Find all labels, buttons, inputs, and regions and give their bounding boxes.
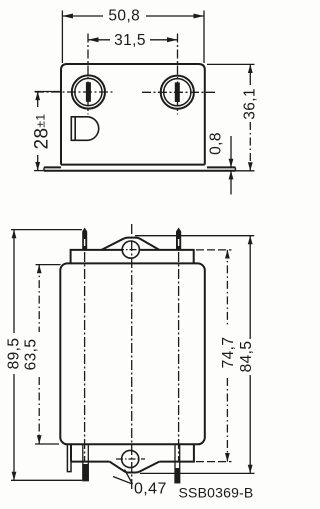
dimension 63,5: extension top bbox=[36, 264, 61, 266]
dimension 84,5: extension top bbox=[135, 235, 254, 237]
svg-text:28±1: 28±1 bbox=[32, 114, 53, 150]
dimension 31,5: dimension line bbox=[88, 39, 178, 41]
D-shaped cutout bbox=[71, 117, 98, 141]
dimension 28±1: dimension line bbox=[37, 92, 39, 171]
dimension 63,5: bottom arrow bbox=[37, 435, 42, 444]
dimension 74,7: extension bottom bbox=[196, 461, 232, 463]
screw terminal left: inner circle bbox=[75, 78, 102, 105]
dimension 36,1: extension line top bbox=[207, 63, 255, 65]
centerline horizontal right circle bbox=[142, 91, 218, 93]
dimension 84,5: top arrow bbox=[248, 236, 253, 245]
screw terminal left: outer circle bbox=[72, 75, 105, 108]
dimension 84,5: bottom arrow bbox=[248, 465, 253, 474]
base plate right end bbox=[234, 167, 236, 170]
svg-text:74,7: 74,7 bbox=[220, 337, 237, 369]
dimension 89,5: bottom arrow bbox=[12, 472, 17, 481]
dimension 74,7: dimension line bbox=[226, 250, 228, 462]
svg-text:0,47: 0,47 bbox=[134, 481, 167, 498]
dimension 50,8: left arrow bbox=[62, 14, 73, 19]
bottom mounting bracket bbox=[110, 462, 160, 473]
screw terminal right: screw slot bbox=[175, 82, 180, 102]
bottom terminal pin left bbox=[83, 444, 89, 480]
centerline vertical right pins bbox=[178, 252, 180, 462]
dimension 84,5: extension bottom bbox=[140, 472, 255, 474]
cover bottom edge bbox=[61, 164, 205, 166]
dimension 28±1: extension line bottom bbox=[34, 170, 44, 172]
leader 0,47: line b bbox=[125, 470, 133, 485]
svg-text:50,8: 50,8 bbox=[108, 8, 140, 25]
base plate top edge right segment bbox=[207, 166, 235, 168]
base plate (0,8 mm flange) top edge left segment bbox=[44, 166, 61, 168]
top bracket hole horizontal centerline bbox=[117, 249, 146, 251]
svg-text:63,5: 63,5 bbox=[23, 339, 40, 371]
dimension 31,5: left arrow bbox=[88, 37, 99, 42]
base plate left end bbox=[43, 167, 45, 170]
dimension 74,7: extension top bbox=[196, 249, 232, 251]
base plate bottom edge bbox=[44, 170, 235, 172]
svg-text:84,5: 84,5 bbox=[238, 341, 255, 373]
centerline horizontal left circle bbox=[35, 91, 113, 93]
svg-text:36,1: 36,1 bbox=[242, 88, 259, 120]
dimension 31,5: right arrow bbox=[167, 37, 178, 42]
dimension 89,5: extension top bbox=[11, 229, 82, 231]
dimension 63,5: top arrow bbox=[37, 265, 42, 274]
dimension 63,5: dimension line bbox=[38, 265, 40, 444]
cover outline (top view box) bbox=[61, 64, 205, 165]
dimension 84,5: dimension line bbox=[249, 236, 251, 474]
top mounting bracket bbox=[102, 238, 160, 250]
dimension 50,8: dimension line bbox=[62, 15, 204, 17]
dimension 89,5: extension bottom bbox=[11, 479, 82, 481]
dimension 50,8: extension line left bbox=[61, 11, 63, 64]
dimension 74,7: bottom arrow bbox=[225, 453, 230, 462]
bottom flange bbox=[71, 444, 194, 461]
top terminal pin left bbox=[82, 228, 87, 251]
dimension 28±1: top arrow bbox=[35, 92, 40, 101]
dimension 28±1: bottom arrow bbox=[35, 162, 40, 171]
dimension 36,1: bottom arrow bbox=[248, 162, 253, 171]
body outline bbox=[60, 263, 205, 444]
top bracket hole bbox=[122, 241, 139, 258]
dimension 0,8: lower line with up arrow bbox=[230, 171, 232, 195]
screw terminal right: inner circle bbox=[164, 79, 191, 106]
dimension 50,8: right arrow bbox=[194, 14, 205, 19]
top terminal pin right bbox=[176, 228, 181, 251]
centerline vertical middle bbox=[131, 224, 133, 489]
dimension 50,8: extension line right bbox=[203, 11, 205, 64]
centerline vertical left circle bbox=[87, 34, 89, 115]
bottom bracket hole bbox=[122, 450, 139, 467]
leader 0,47: line a bbox=[113, 477, 133, 485]
bottom bracket hole horizontal centerline bbox=[116, 458, 145, 460]
dimension 89,5: dimension line bbox=[13, 230, 15, 481]
top flange bbox=[71, 250, 194, 264]
svg-text:SSB0369-B: SSB0369-B bbox=[179, 485, 254, 501]
svg-text:89,5: 89,5 bbox=[6, 338, 23, 370]
dimension 28±1: extension line top bbox=[35, 91, 63, 93]
centerline vertical left pins bbox=[84, 252, 86, 462]
dimension 74,7: top arrow bbox=[225, 250, 230, 259]
dimension 89,5: top arrow bbox=[12, 230, 17, 239]
dimension 63,5: extension bottom bbox=[35, 443, 59, 445]
bottom terminal pin right bbox=[175, 444, 180, 483]
centerline vertical right circle bbox=[177, 34, 179, 115]
svg-text:0,8: 0,8 bbox=[208, 132, 225, 155]
dimension 36,1: dimension line bbox=[249, 64, 251, 85]
svg-text:31,5: 31,5 bbox=[114, 32, 146, 49]
screw terminal right: outer circle bbox=[161, 76, 194, 109]
earth tab bottom left bbox=[67, 444, 71, 471]
screw terminal left: screw slot bbox=[86, 82, 91, 102]
dimension 0,8: upper line with down arrow bbox=[230, 136, 232, 167]
dimension 36,1: bottom extension (plate bottom prolongation) bbox=[235, 170, 254, 172]
dimension 36,1: top arrow bbox=[248, 64, 253, 73]
